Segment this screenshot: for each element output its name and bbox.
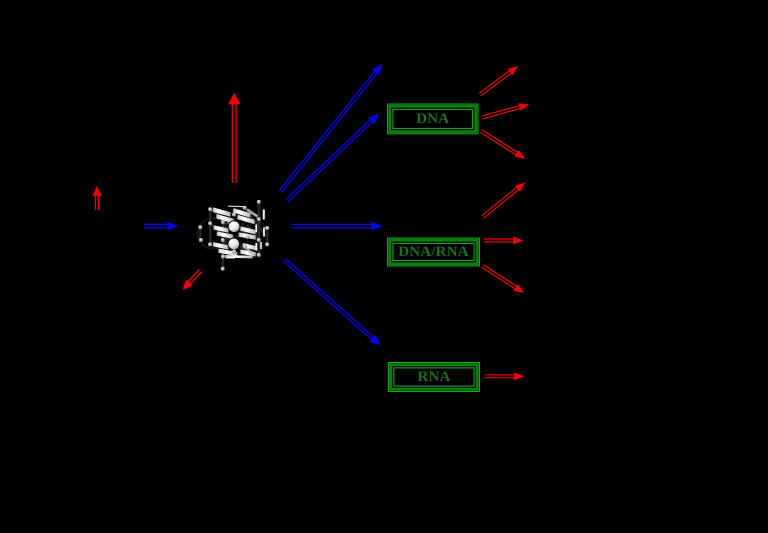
red arrow: DNA/RNA to upper-right product <box>482 183 525 218</box>
svg-text:DNA/RNA: DNA/RNA <box>398 244 469 260</box>
red arrow: DNA to right product <box>482 104 529 119</box>
red arrow: DNA/RNA to lower-right product <box>482 265 524 293</box>
white bond slats (three double-row bands) <box>213 210 232 215</box>
red arrow: complex upward <box>229 94 240 184</box>
nanoparticle crystal-structure complex (center) <box>198 200 270 271</box>
svg-text:RNA: RNA <box>417 369 450 385</box>
green box: DNA <box>388 104 479 134</box>
green box: DNA/RNA <box>388 238 480 266</box>
lattice node atoms <box>208 207 212 211</box>
red arrow: complex down-left <box>183 269 202 289</box>
thin white highlight lines <box>228 205 246 208</box>
red arrow: DNA/RNA to right product <box>484 237 523 244</box>
blue arrow: complex to RNA box <box>283 258 380 345</box>
red arrow: small left upward <box>93 187 101 211</box>
central metal sphere 1 <box>228 221 240 233</box>
vertical posts <box>209 209 211 245</box>
blue arrow: complex to top-right target <box>279 65 382 193</box>
blue arrow: input into complex (left) <box>144 222 178 230</box>
central metal sphere 2 <box>228 238 240 250</box>
small bright diagonal facets <box>247 210 258 217</box>
red arrow: RNA to right product <box>485 373 524 380</box>
dark depth-edge diagonals <box>211 209 235 226</box>
green box: RNA <box>389 363 480 392</box>
red arrow: DNA to upper-right product <box>479 67 517 96</box>
blue arrow: complex to DNA box <box>286 114 379 202</box>
red arrow: DNA to lower-right product <box>480 130 524 159</box>
lattice cage circle (left) <box>198 219 228 249</box>
svg-text:DNA: DNA <box>416 111 449 127</box>
blue arrow: complex to DNA/RNA (horizontal) <box>292 222 382 230</box>
lattice cage circle (right) <box>238 220 268 250</box>
